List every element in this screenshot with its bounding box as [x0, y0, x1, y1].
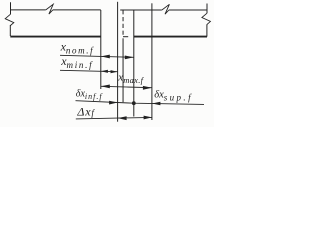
- right part: top edge left of break: [120, 9, 162, 11]
- svg-text:xmax.f: xmax.f: [117, 71, 144, 85]
- right part: right edge break zigzag: [202, 13, 211, 24]
- row4 arrow at min face (points right, body outside-left): [109, 101, 118, 105]
- dashed face position (alternate position of right face): [122, 10, 124, 37]
- right part: right edge lower segment: [206, 24, 208, 36]
- extension line of minimum-gap face: [117, 2, 119, 122]
- svg-text:δxinf.f: δxinf.f: [76, 88, 104, 101]
- row3 arrow right: [143, 86, 152, 90]
- svg-text:δxsup.f: δxsup.f: [154, 90, 193, 103]
- dimension row 5 line (tolerance): [76, 117, 152, 119]
- dimension row 2 line (x min): [60, 70, 118, 71]
- left part: top edge right of break: [53, 9, 101, 11]
- dimension row 3 line (x max): [101, 86, 152, 87]
- dimension row 1 line (x nom): [60, 55, 134, 57]
- extension line of maximum-gap face (crosses right part): [151, 3, 153, 120]
- svg-text:xmin.f: xmin.f: [60, 54, 93, 70]
- dashed position extension line below: [122, 38, 124, 102]
- svg-text:xnom.f: xnom.f: [60, 40, 95, 56]
- right part: bottom edge (thick): [134, 36, 207, 38]
- dimension row 4 line (deviations): [76, 101, 205, 105]
- right part: right edge upper segment: [206, 4, 208, 14]
- left part: top edge left of break: [11, 9, 46, 11]
- right part: top edge break zigzag: [162, 4, 170, 14]
- row4 dot at nominal face: [132, 101, 136, 105]
- left part right face + extension line down: [100, 10, 102, 89]
- svg-text:Δxf: Δxf: [76, 105, 95, 119]
- row2 arrow right: [111, 70, 118, 73]
- left part: left edge lower segment: [9, 25, 11, 36]
- row1 arrow left: [101, 55, 110, 59]
- row4 arrow at max face (points left, body outside-right): [152, 102, 161, 106]
- row5 arrow left: [118, 116, 127, 120]
- row3 arrow left: [101, 85, 110, 89]
- row5 arrow right: [144, 116, 153, 120]
- left part: top edge break zigzag: [46, 4, 53, 14]
- left part: left edge break zigzag: [5, 14, 14, 25]
- left part: bottom edge (thick): [10, 36, 101, 38]
- left part: left edge upper segment: [10, 2, 12, 14]
- right part left face + extension line down: [133, 10, 135, 117]
- right part: top edge right of break: [169, 9, 207, 11]
- row1 arrow right: [125, 56, 134, 60]
- row2 arrow left: [101, 70, 108, 73]
- dashed position bottom tick: [123, 36, 128, 38]
